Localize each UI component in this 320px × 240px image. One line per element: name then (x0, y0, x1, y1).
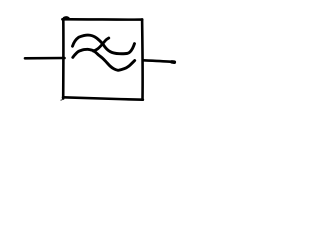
sine wave top (hump, self-cross descent, valley) (73, 35, 135, 54)
filter U1 (hand-drawn band-pass filter symbol) (0, 0, 198, 122)
wire right lead tip blob (172, 60, 175, 64)
wire right lead (144, 60, 171, 61)
filter box bottom edge (63, 97, 143, 99)
filter box bottom-left overshoot tail (61, 99, 63, 100)
filter box top edge (62, 18, 142, 21)
filter box left edge (62, 19, 65, 99)
crossing slash stroke over top wave (94, 38, 109, 51)
filter box top-left start bump (64, 16, 69, 19)
filter box right edge (141, 19, 144, 99)
sine wave bottom (73, 49, 135, 70)
wire left lead (25, 57, 65, 60)
